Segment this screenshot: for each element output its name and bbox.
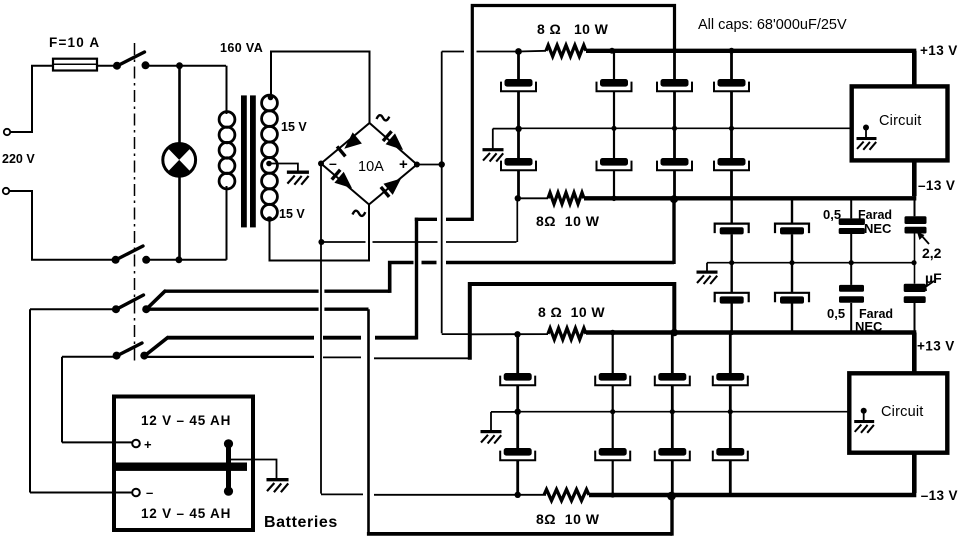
diode D3 (lower-left) xyxy=(332,170,352,189)
node mid c4 xyxy=(729,126,734,131)
wire lamp bottom lead xyxy=(178,176,181,260)
circuit block U1 xyxy=(852,86,948,160)
wire lower rail left xyxy=(471,333,548,335)
rail top amp -13V xyxy=(584,196,916,200)
capacitor C 2.2uF upper xyxy=(905,196,927,263)
battery box xyxy=(114,397,253,531)
wire fuse to switch S1a xyxy=(97,65,114,67)
label all caps xyxy=(698,17,847,33)
capacitor bank1 col4 lower 68000uF xyxy=(714,128,749,198)
node bmid c3 xyxy=(849,260,854,265)
battery plus terminal xyxy=(132,437,152,452)
wire plus feed top horizontal xyxy=(442,51,519,53)
node top rail c1 xyxy=(515,48,522,55)
label 15 V upper xyxy=(281,120,307,134)
label 10A xyxy=(358,159,384,175)
label R2 8ohm 10W xyxy=(536,213,600,229)
ground lower bank xyxy=(481,430,502,444)
label -13 V top xyxy=(918,178,955,193)
svg-text:15 V: 15 V xyxy=(279,207,305,221)
capacitor bank2 col2 upper 68000uF xyxy=(595,333,630,412)
wire live terminal to fuse xyxy=(10,66,53,132)
label bridge ac top xyxy=(377,115,390,120)
svg-text:–: – xyxy=(329,155,337,171)
svg-text:All caps: 68'000uF/25V: All caps: 68'000uF/25V xyxy=(698,17,847,33)
svg-text:8 Ω 10 W: 8 Ω 10 W xyxy=(538,304,605,320)
switch S1b xyxy=(112,246,151,264)
capacitor bank2 col1 upper 68000uF xyxy=(500,334,535,411)
svg-text:Batteries: Batteries xyxy=(264,514,338,531)
resistor R2 8ohm 10W xyxy=(548,193,584,204)
svg-text:0,5: 0,5 xyxy=(827,306,845,321)
capacitor bank2 col4 lower 68000uF xyxy=(713,412,748,495)
battery series link xyxy=(224,439,233,496)
label R3 8ohm 10W xyxy=(538,304,605,320)
svg-text:NEC: NEC xyxy=(864,221,892,236)
rail battery plus riser xyxy=(415,218,473,340)
switch S1a xyxy=(113,52,150,70)
svg-text:Circuit: Circuit xyxy=(879,113,922,129)
label 160 VA xyxy=(220,41,263,55)
svg-text:Circuit: Circuit xyxy=(881,404,924,420)
resistor R4 8ohm 10W xyxy=(544,489,589,500)
capacitor bank1 col3 lower 68000uF xyxy=(657,128,692,198)
capacitor bank1 col3 upper 68000uF xyxy=(657,51,692,129)
wire plus feed up xyxy=(441,52,443,165)
label +13 V lower xyxy=(917,339,955,354)
mid wire top amp xyxy=(493,127,866,129)
capacitor bank1 col2 upper 68000uF xyxy=(597,51,632,129)
node bridge plus feed xyxy=(439,161,445,167)
wire secondary top tap to bridge xyxy=(268,52,370,125)
ground circuit U2 xyxy=(854,408,874,433)
label R1 8ohm 10W xyxy=(537,21,609,37)
ground circuit U1 xyxy=(857,125,877,150)
node bmid right end xyxy=(911,260,916,265)
svg-text:2,2: 2,2 xyxy=(922,245,942,261)
diode D2 (upper-right) xyxy=(383,131,403,150)
fuse F1 xyxy=(53,59,97,71)
node bot rail c1 xyxy=(515,195,521,201)
switch S3 (battery plus) xyxy=(113,343,149,360)
capacitor bank2 col2 lower 68000uF xyxy=(595,412,630,495)
diode D4 (lower-right) xyxy=(381,179,401,197)
node lower rail c3 xyxy=(671,329,679,337)
switch S3 output upper (diagonal) xyxy=(144,338,168,357)
node lmid c2 xyxy=(610,409,615,414)
wire battery minus lead xyxy=(30,492,132,494)
wire top ground stub xyxy=(492,129,494,149)
rail battery plus riser2 xyxy=(472,6,674,222)
svg-text:+: + xyxy=(399,156,408,173)
wire plus feed down xyxy=(441,165,443,334)
node lamp top xyxy=(176,62,183,69)
wire S1a to transformer xyxy=(146,65,227,67)
ground battery center xyxy=(266,478,288,492)
wire top -13V drop from circuit xyxy=(912,160,917,196)
capacitor between lower 68000uF x792 xyxy=(775,263,809,333)
battery divider bar xyxy=(116,463,247,471)
capacitor C 2.2uF lower xyxy=(904,263,926,333)
switch S2 (battery minus) xyxy=(112,295,150,313)
switch S3 output lower rail xyxy=(144,357,468,358)
capacitor between upper 68000uF x731.7 xyxy=(715,198,749,262)
rail lower amp -13V xyxy=(589,493,916,497)
wire bot rail c1 to resistor xyxy=(518,197,548,199)
node lmid c4 xyxy=(728,409,733,414)
svg-text:8 Ω 10 W: 8 Ω 10 W xyxy=(537,21,609,37)
node bridge minus branch xyxy=(318,239,324,245)
wire neutral terminal to switch S1b xyxy=(9,191,113,260)
label bridge minus xyxy=(329,155,337,171)
rail battery minus lower drop xyxy=(367,309,370,534)
svg-text:12 V – 45 AH: 12 V – 45 AH xyxy=(141,413,231,428)
svg-text:–13 V: –13 V xyxy=(918,178,955,193)
node mid c1 xyxy=(515,126,521,132)
rail battery minus upper to top amp xyxy=(422,199,675,264)
capacitor bank1 col2 lower 68000uF xyxy=(597,128,632,198)
wire battery plus to S3 xyxy=(62,357,114,443)
capacitor C 0.5F NEC upper xyxy=(839,198,865,262)
label Circuit U1 xyxy=(879,113,922,129)
switch gang link (dash-dot) xyxy=(134,43,136,362)
node lmid c3 xyxy=(670,409,675,414)
rail battery minus bottom riser xyxy=(670,496,673,536)
rail battery minus upper xyxy=(164,290,389,293)
wire between ground stub xyxy=(706,263,708,271)
svg-text:–: – xyxy=(146,485,153,500)
wire lower +13V drop to circuit xyxy=(912,333,917,375)
ground center tap xyxy=(287,171,309,185)
node bridge plus corner xyxy=(414,162,420,168)
label +13 V top xyxy=(920,43,958,58)
label bridge plus xyxy=(399,156,408,173)
rail lower amp +13V xyxy=(586,330,916,334)
capacitor between lower 68000uF x731.7 xyxy=(715,263,749,333)
capacitor between upper 68000uF x792 xyxy=(775,198,809,262)
diode D1 (upper-left) xyxy=(337,132,362,156)
wire minus to lower minus rail xyxy=(321,493,546,495)
label -13 V lower xyxy=(921,488,958,503)
wire battery plus lead xyxy=(62,441,132,443)
label Batteries xyxy=(264,514,338,531)
capacitor bank1 col1 upper 68000uF xyxy=(501,52,536,129)
wire lower ground stub xyxy=(490,412,492,431)
rail battery minus bottom run xyxy=(367,532,672,536)
label F=10 A xyxy=(49,35,100,50)
mains live terminal xyxy=(4,129,10,135)
node lower rail c1 xyxy=(514,331,520,337)
svg-text:+13 V: +13 V xyxy=(920,43,958,58)
svg-text:160 VA: 160 VA xyxy=(220,41,263,55)
mid wire lower amp xyxy=(491,411,864,413)
node bmid c2 xyxy=(789,260,794,265)
resistor R1 8ohm 10W xyxy=(519,45,587,56)
switch S2 output upper (diagonal) xyxy=(146,291,165,310)
label bridge ac bottom xyxy=(353,211,366,216)
transformer T1 primary winding xyxy=(219,66,235,260)
wire lamp top lead xyxy=(178,66,181,144)
node minus rail on top amp -13V xyxy=(670,195,678,203)
label Circuit U2 xyxy=(881,404,924,420)
capacitor bank1 col4 upper 68000uF xyxy=(714,51,749,129)
wire battery minus to S2 xyxy=(30,309,114,492)
node top rail c2 xyxy=(609,48,615,54)
node mid c2 xyxy=(611,126,616,131)
transformer T1 secondary winding xyxy=(262,95,278,220)
svg-text:F=10 A: F=10 A xyxy=(49,35,100,50)
svg-text:15 V: 15 V xyxy=(281,120,307,134)
node lower rail c2 xyxy=(610,330,616,336)
label 2,2 uF xyxy=(922,245,942,286)
svg-text:10A: 10A xyxy=(358,159,384,175)
resistor R3 8ohm 10W xyxy=(548,328,586,339)
svg-text:220 V: 220 V xyxy=(2,152,35,166)
rail top amp +13V xyxy=(586,49,916,53)
arrow to 2.2uF upper xyxy=(917,232,929,244)
circuit block U2 xyxy=(849,373,947,452)
capacitor bank2 col1 lower 68000uF xyxy=(500,412,535,495)
capacitor bank2 col4 upper 68000uF xyxy=(713,333,748,412)
label 0,5 Farad NEC upper xyxy=(823,207,892,236)
wire secondary bottom tap to bridge xyxy=(267,205,369,261)
wire top +13V drop to circuit xyxy=(912,51,917,87)
transformer T1 core xyxy=(241,95,256,227)
capacitor bank2 col3 lower 68000uF xyxy=(655,412,690,495)
svg-text:8Ω 10 W: 8Ω 10 W xyxy=(536,511,600,527)
wire S1b to transformer primary xyxy=(146,259,226,261)
bridge rectifier outline xyxy=(321,123,417,205)
label 220 V xyxy=(2,152,35,166)
wire battery center tap to ground xyxy=(231,460,277,479)
node lower bot c1 xyxy=(515,492,521,498)
svg-text:+13 V: +13 V xyxy=(917,339,955,354)
node minus rail on lower -13V xyxy=(667,492,676,501)
svg-text:µF: µF xyxy=(925,270,942,286)
node lower bot c2 xyxy=(610,492,615,497)
node mid c3 xyxy=(672,126,677,131)
switch S2 output lower rail xyxy=(146,308,368,311)
node bridge minus corner xyxy=(318,161,324,167)
node bot rail c4 xyxy=(729,196,734,201)
wire center tap to ground xyxy=(269,164,298,172)
wire bridge minus down xyxy=(320,164,322,494)
svg-text:Farad: Farad xyxy=(858,208,892,222)
wire bridge plus to node xyxy=(417,164,442,166)
ground top bank xyxy=(483,148,504,162)
label R4 8ohm 10W xyxy=(536,511,600,527)
wire minus branch to upper bank xyxy=(321,200,517,242)
label 0,5 Farad NEC lower xyxy=(827,306,893,334)
mid wire between amps xyxy=(707,262,915,264)
node lmid c1 xyxy=(515,409,521,415)
svg-text:8Ω 10 W: 8Ω 10 W xyxy=(536,213,600,229)
node bmid c1 xyxy=(729,260,734,265)
label battery lower 12V-45AH xyxy=(141,506,231,521)
svg-text:0,5: 0,5 xyxy=(823,207,841,222)
capacitor bank2 col3 upper 68000uF xyxy=(655,333,690,412)
wire plus feed to lower bank xyxy=(442,333,468,335)
svg-text:+: + xyxy=(144,437,152,452)
node bot rail c2 xyxy=(611,196,617,202)
mains neutral terminal xyxy=(3,188,9,194)
svg-text:12 V – 45 AH: 12 V – 45 AH xyxy=(141,506,231,521)
node lamp bottom xyxy=(176,256,183,263)
rail battery minus upper riser xyxy=(390,263,414,293)
capacitor bank1 col1 lower 68000uF xyxy=(501,128,536,198)
wire lower -13V drop from circuit xyxy=(912,453,917,493)
node top rail c4 xyxy=(729,48,735,54)
label battery upper 12V-45AH xyxy=(141,413,231,428)
lamp LP1 xyxy=(163,143,196,176)
arrow to 2.2uF lower xyxy=(919,281,935,291)
node lower rail c4 xyxy=(729,330,734,335)
label 15 V lower xyxy=(279,207,305,221)
capacitor C 0.5F NEC lower xyxy=(839,263,864,333)
svg-text:–13 V: –13 V xyxy=(921,488,958,503)
node secondary center tap xyxy=(266,161,272,167)
lower bank feed box xyxy=(470,284,675,360)
rail battery plus upper xyxy=(167,336,417,340)
ground between amps xyxy=(697,271,718,285)
battery minus terminal xyxy=(132,485,153,500)
